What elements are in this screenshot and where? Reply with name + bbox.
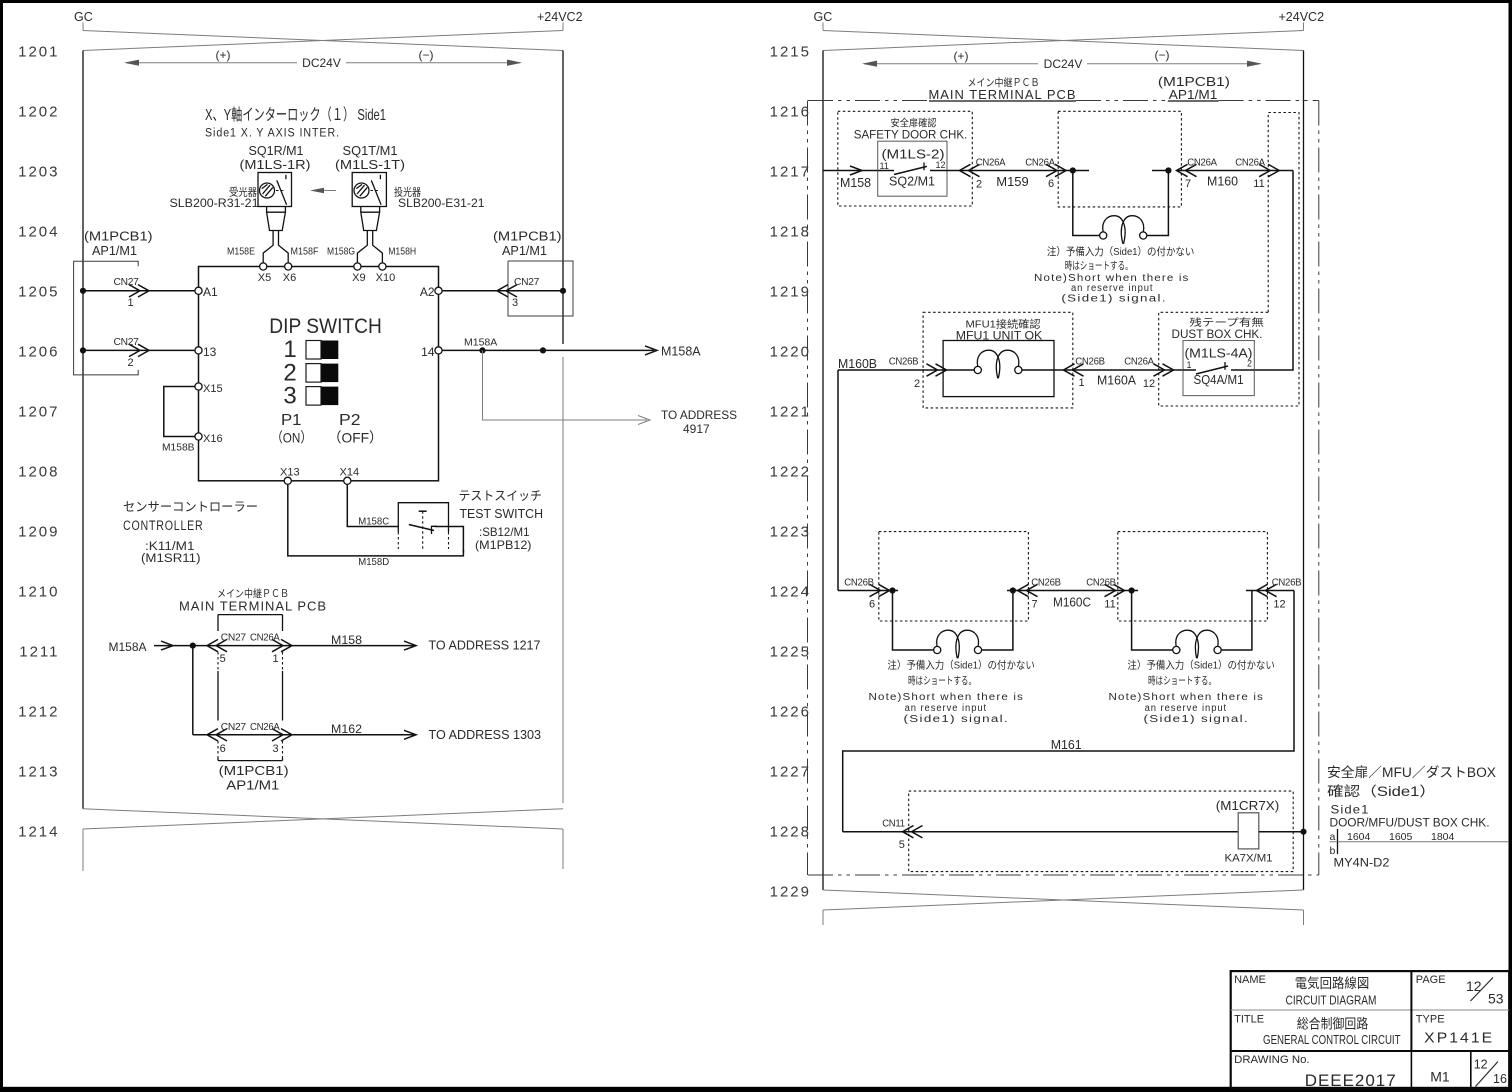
PCB bracket M1PCB1 (right) xyxy=(493,230,573,317)
cable connector below SQ1R xyxy=(267,207,286,231)
PCB label below connector box xyxy=(219,764,289,793)
svg-text:1227: 1227 xyxy=(770,764,811,781)
net GC label (right block) xyxy=(814,10,833,31)
svg-text:12: 12 xyxy=(1474,1058,1488,1072)
svg-text:P1: P1 xyxy=(281,412,302,429)
terminal X15 xyxy=(195,383,223,395)
svg-text:11: 11 xyxy=(1104,599,1115,611)
svg-text:SLB200-E31-21: SLB200-E31-21 xyxy=(398,198,485,210)
svg-text:AP1/M1: AP1/M1 xyxy=(226,779,279,793)
title block: TYPE cell xyxy=(1416,1014,1494,1047)
svg-text:センサーコントローラー: センサーコントローラー xyxy=(123,500,258,514)
svg-text:4917: 4917 xyxy=(683,422,710,436)
svg-text:1204: 1204 xyxy=(18,224,59,241)
svg-text:12: 12 xyxy=(1143,378,1155,390)
svg-text:DUST BOX CHK.: DUST BOX CHK. xyxy=(1172,329,1263,341)
svg-text:CN11: CN11 xyxy=(882,819,905,830)
safety door check dotted box xyxy=(838,111,973,206)
connector CN27 pin3 (A2 to +24VC2 rail) xyxy=(442,277,566,309)
svg-text:2: 2 xyxy=(976,179,982,191)
test switch SB12/M1 xyxy=(398,503,463,553)
connector CN27 pin5 / CN26A pin1 (row 1211) xyxy=(207,633,292,666)
title block: NAME cell xyxy=(1234,974,1376,1008)
svg-text:CN26A: CN26A xyxy=(1187,158,1217,169)
svg-text:DRAWING No.: DRAWING No. xyxy=(1234,1054,1310,1066)
terminal X14 xyxy=(340,467,360,485)
page-break cross (left block top) xyxy=(83,31,563,51)
address row labels 1201-1214 xyxy=(18,44,59,841)
svg-text:DEEE2017: DEEE2017 xyxy=(1305,1071,1397,1090)
wire M162 to address 1303 xyxy=(331,722,541,742)
svg-text:時はショートする。: 時はショートする。 xyxy=(1148,675,1216,687)
terminal A2 xyxy=(420,285,442,299)
address row labels 1215-1229 xyxy=(770,44,811,901)
svg-text:M158C: M158C xyxy=(358,516,389,528)
reserve input dotted box B (rows 1223-24) xyxy=(1118,532,1268,621)
wire M158A drop to row 1212 xyxy=(192,646,194,735)
wire M158B (X15-X16 jumper loop) xyxy=(162,387,195,454)
svg-text:2: 2 xyxy=(1247,359,1252,369)
PCB label M1PCB1 AP1/M1 header xyxy=(1158,75,1230,102)
connector CN11 pin5 (row 1228) xyxy=(843,819,1238,852)
svg-text:SQ1T/M1: SQ1T/M1 xyxy=(343,143,398,158)
svg-text:X9: X9 xyxy=(352,272,365,284)
connector CN26B pin1 / CN26A pin12 (wire M160A) xyxy=(1054,357,1183,391)
svg-text:安全扉／MFU／ダストBOX: 安全扉／MFU／ダストBOX xyxy=(1327,764,1496,780)
svg-text:53: 53 xyxy=(1488,991,1504,1007)
svg-text:3: 3 xyxy=(273,743,279,755)
svg-text:確認（Side1）: 確認（Side1） xyxy=(1327,784,1436,799)
svg-text:1214: 1214 xyxy=(18,824,59,841)
svg-text:MY4N-D2: MY4N-D2 xyxy=(1334,856,1390,870)
svg-text:1201: 1201 xyxy=(18,44,59,61)
svg-text:CN26A: CN26A xyxy=(250,722,280,733)
svg-text:M158D: M158D xyxy=(358,556,389,568)
svg-text:(M1PCB1): (M1PCB1) xyxy=(1158,75,1230,89)
svg-text:CN27: CN27 xyxy=(514,277,540,288)
svg-text:安全扉確認: 安全扉確認 xyxy=(891,117,937,130)
svg-text:1217: 1217 xyxy=(770,164,811,181)
svg-text:M160A: M160A xyxy=(1097,374,1137,388)
limit switch SQ2/M1 (safety door) xyxy=(878,141,947,196)
svg-text:X5: X5 xyxy=(258,272,271,284)
svg-text:CN26A: CN26A xyxy=(976,158,1006,169)
svg-text:M158A: M158A xyxy=(464,337,497,349)
wire M158G (SQ1T to X9) xyxy=(327,231,367,263)
svg-text:12: 12 xyxy=(936,160,946,170)
svg-text:(+): (+) xyxy=(216,48,231,62)
svg-text:1213: 1213 xyxy=(18,764,59,781)
svg-text:DIP SWITCH: DIP SWITCH xyxy=(269,315,382,338)
test switch labels xyxy=(459,489,544,552)
svg-text:1224: 1224 xyxy=(770,584,811,601)
wire M158C (X14 to test switch) xyxy=(347,484,398,527)
relay contact cross reference table xyxy=(1330,829,1510,870)
page-break cross (right block bottom) xyxy=(823,890,1304,925)
svg-text:M162: M162 xyxy=(331,722,362,736)
svg-text:(M1LS-1R): (M1LS-1R) xyxy=(240,157,311,172)
svg-text:DOOR/MFU/DUST BOX CHK.: DOOR/MFU/DUST BOX CHK. xyxy=(1330,818,1490,830)
svg-text:1206: 1206 xyxy=(18,344,59,361)
MFU1 unit jumper box xyxy=(943,341,1054,397)
terminal 13 xyxy=(195,345,217,359)
svg-text:AP1/M1: AP1/M1 xyxy=(1169,88,1218,102)
svg-text:12: 12 xyxy=(1273,599,1285,611)
wire M158A out (to right) xyxy=(442,337,701,359)
svg-text:TO ADDRESS 1303: TO ADDRESS 1303 xyxy=(429,728,542,742)
title block: 12/16 cell xyxy=(1474,1058,1507,1087)
svg-text:CN27: CN27 xyxy=(221,722,247,733)
svg-text:(M1PCB1): (M1PCB1) xyxy=(84,230,153,244)
svg-text:X6: X6 xyxy=(283,272,296,284)
wire M158H (SQ1T to X10) xyxy=(373,231,417,263)
net +24VC2 label (left block) xyxy=(537,10,583,31)
svg-text:M158E: M158E xyxy=(227,246,255,258)
wire M160 loop to row 1220 xyxy=(1254,171,1293,371)
svg-text:1210: 1210 xyxy=(18,584,59,601)
svg-text:1203: 1203 xyxy=(18,164,59,181)
svg-text:1215: 1215 xyxy=(770,44,811,61)
reserve input dotted box (row 1217) xyxy=(1058,111,1181,207)
dust box chain dotted region (L shape) xyxy=(1159,113,1299,407)
svg-text:GENERAL CONTROL CIRCUIT: GENERAL CONTROL CIRCUIT xyxy=(1263,1033,1401,1047)
svg-text:M158F: M158F xyxy=(291,246,319,258)
limit switch SQ1T/M1 labels xyxy=(335,143,485,210)
svg-text:M158H: M158H xyxy=(388,246,416,258)
svg-text:1208: 1208 xyxy=(18,464,59,481)
svg-text:M158A: M158A xyxy=(109,640,147,654)
svg-text:(−): (−) xyxy=(1155,48,1170,62)
title block frame xyxy=(1231,971,1510,1089)
terminal X6 xyxy=(283,263,296,284)
main terminal PCB header (right block) xyxy=(929,76,1077,102)
svg-text:6: 6 xyxy=(220,743,226,755)
svg-text:M158B: M158B xyxy=(162,442,195,454)
Side1 boundary chain line (right) xyxy=(1318,101,1320,876)
svg-text:M160B: M160B xyxy=(838,357,877,371)
svg-text:(+): (+) xyxy=(954,49,969,63)
svg-text:TO ADDRESS: TO ADDRESS xyxy=(661,408,737,422)
net GC label (left) xyxy=(74,10,93,31)
svg-text:TITLE: TITLE xyxy=(1234,1014,1264,1026)
connector CN26A pin7 / pin11 (wire M160) xyxy=(1177,158,1294,191)
svg-text:(M1PCB1): (M1PCB1) xyxy=(219,764,289,778)
svg-text:(M1CR7X): (M1CR7X) xyxy=(1216,799,1280,813)
terminal 14 xyxy=(421,345,442,359)
page border xyxy=(0,0,1512,3)
cable connector below SQ1T xyxy=(361,207,380,231)
svg-text:X14: X14 xyxy=(340,467,360,479)
svg-text:6: 6 xyxy=(869,599,875,611)
svg-text:1216: 1216 xyxy=(770,104,811,121)
svg-text:Side1: Side1 xyxy=(1331,803,1370,817)
svg-text:CONTROLLER: CONTROLLER xyxy=(123,518,204,533)
svg-text:CN26B: CN26B xyxy=(844,578,874,589)
wire M158D (test switch to X13) xyxy=(288,484,464,568)
wire M158 entering row 1217 xyxy=(823,166,878,190)
svg-text:CN27: CN27 xyxy=(221,633,247,644)
svg-text:16: 16 xyxy=(1493,1072,1507,1086)
svg-text:1223: 1223 xyxy=(770,524,811,541)
svg-text:SQ1R/M1: SQ1R/M1 xyxy=(249,143,304,158)
svg-text:A2: A2 xyxy=(420,285,435,299)
svg-text:CN27: CN27 xyxy=(114,277,140,288)
svg-text:(Side1) signal.: (Side1) signal. xyxy=(1144,714,1250,725)
svg-text:GC: GC xyxy=(74,10,93,24)
svg-text:Note)Short when there is: Note)Short when there is xyxy=(1109,692,1265,703)
svg-text:2: 2 xyxy=(914,378,920,390)
limit switch SQ4A/M1 (dust box) xyxy=(1183,341,1254,396)
net +24VC2 label (right block) xyxy=(1279,10,1325,31)
beam direction arrow xyxy=(310,188,336,194)
svg-text:2: 2 xyxy=(128,357,134,369)
svg-text:an reserve input: an reserve input xyxy=(1145,703,1228,714)
svg-text:TEST SWITCH: TEST SWITCH xyxy=(460,506,544,521)
svg-text:注）予備入力（Side1）の付かない: 注）予備入力（Side1）の付かない xyxy=(1127,659,1275,672)
svg-text:11: 11 xyxy=(1253,178,1264,190)
svg-text:(M1LS-1T): (M1LS-1T) xyxy=(335,157,405,172)
svg-text:1219: 1219 xyxy=(770,284,811,301)
svg-text:注）予備入力（Side1）の付かない: 注）予備入力（Side1）の付かない xyxy=(1047,245,1195,258)
svg-text:CN26B: CN26B xyxy=(889,357,919,368)
svg-text::K11/M1: :K11/M1 xyxy=(145,541,195,553)
svg-text:6: 6 xyxy=(1048,178,1054,190)
svg-text::SB12/M1: :SB12/M1 xyxy=(479,525,530,539)
svg-text:(Side1) signal.: (Side1) signal. xyxy=(904,714,1010,725)
sensor controller labels xyxy=(123,500,258,565)
wire M160B (row 1220) xyxy=(838,357,947,391)
svg-text:CN26A: CN26A xyxy=(1025,158,1055,169)
svg-text:(M1SR11): (M1SR11) xyxy=(141,553,201,565)
svg-text:DC24V: DC24V xyxy=(302,56,341,70)
svg-text:残テープ有無: 残テープ有無 xyxy=(1189,316,1264,329)
svg-text:an reserve input: an reserve input xyxy=(1071,283,1154,294)
connector CN27 pin6 / CN26A pin3 (row 1212) xyxy=(193,722,416,755)
connector CN26A pin2 / pin6 (wire M159) xyxy=(947,158,1073,191)
note text B (rows 1225-26) xyxy=(1109,659,1275,726)
limit switch SQ1R/M1 (receiver SLB200-R31-21) xyxy=(258,173,292,207)
svg-text:1209: 1209 xyxy=(18,524,59,541)
svg-text:M161: M161 xyxy=(1051,738,1082,752)
note text (row 1218-1219) xyxy=(1034,245,1194,305)
svg-text:1228: 1228 xyxy=(770,824,811,841)
svg-text:CN26B: CN26B xyxy=(1272,578,1302,589)
svg-text:13: 13 xyxy=(203,345,217,359)
svg-text:SLB200-R31-21: SLB200-R31-21 xyxy=(170,198,259,210)
svg-text:1202: 1202 xyxy=(18,104,59,121)
svg-text:1221: 1221 xyxy=(770,404,811,421)
GC power rail (right block, x=823) xyxy=(822,51,824,891)
svg-text:M158: M158 xyxy=(331,633,362,647)
svg-text:5: 5 xyxy=(220,653,226,665)
svg-text:時はショートする。: 時はショートする。 xyxy=(1065,260,1133,272)
page-break cross (right block top) xyxy=(823,31,1304,51)
svg-text:（OFF）: （OFF） xyxy=(328,430,383,446)
wire M158F (SQ1R to X6) xyxy=(279,231,319,263)
svg-text:X15: X15 xyxy=(203,383,223,395)
main terminal PCB label (left block) xyxy=(179,587,327,614)
reserve input jumper (row 1218) xyxy=(1070,167,1172,243)
terminal A1 xyxy=(195,285,218,299)
wire M158A into CN27 pin5 xyxy=(109,640,417,654)
svg-text:1220: 1220 xyxy=(770,344,811,361)
svg-text:1211: 1211 xyxy=(19,644,59,661)
svg-text:CN26A: CN26A xyxy=(1235,158,1265,169)
svg-text:1222: 1222 xyxy=(770,464,811,481)
svg-text:11: 11 xyxy=(880,161,889,171)
svg-text:注）予備入力（Side1）の付かない: 注）予備入力（Side1）の付かない xyxy=(887,659,1035,672)
svg-text:1212: 1212 xyxy=(18,704,59,721)
svg-text:(Side1) signal.: (Side1) signal. xyxy=(1061,294,1167,305)
wire M161 xyxy=(843,591,1294,832)
wire M160B drop (x=838) xyxy=(837,370,839,591)
svg-text:Note)Short when there is: Note)Short when there is xyxy=(869,692,1025,703)
svg-text:電気回路線図: 電気回路線図 xyxy=(1295,976,1370,991)
svg-text:CN26A: CN26A xyxy=(250,633,280,644)
limit switch SQ1T/M1 (emitter SLB200-E31-21) xyxy=(352,173,386,207)
svg-text:1: 1 xyxy=(1187,360,1192,370)
wire relay to +24VC2 rail xyxy=(1259,829,1307,835)
svg-text:A1: A1 xyxy=(203,285,218,299)
connector CN26B pin6 (row 1224) xyxy=(838,578,898,611)
svg-text:XP141E: XP141E xyxy=(1424,1030,1494,1047)
svg-text:CN26B: CN26B xyxy=(1075,357,1105,368)
svg-text:M1: M1 xyxy=(1430,1069,1450,1085)
DC24V polarity arrow (right block) xyxy=(862,48,1262,71)
svg-text:1225: 1225 xyxy=(770,644,811,661)
connector CN26B pin7 / pin11 (wire M160C) xyxy=(1007,578,1138,611)
reserve jumper B (row 1225) xyxy=(1132,591,1252,659)
svg-text:MFU1接続確認: MFU1接続確認 xyxy=(966,318,1042,331)
svg-text:7: 7 xyxy=(1185,178,1191,190)
svg-text:1: 1 xyxy=(128,297,134,309)
relay row dotted box xyxy=(909,791,1293,872)
svg-text:AP1/M1: AP1/M1 xyxy=(502,244,547,258)
svg-text:(M1LS-4A): (M1LS-4A) xyxy=(1185,347,1253,361)
svg-text:TYPE: TYPE xyxy=(1416,1014,1445,1026)
terminal X16 xyxy=(195,433,223,445)
page-break cross (left block bottom) xyxy=(83,809,563,871)
connector CN27 pin1 (wire to A1) xyxy=(80,277,195,309)
svg-text:M159: M159 xyxy=(996,175,1029,189)
svg-text:3: 3 xyxy=(283,383,296,410)
terminal X13 xyxy=(280,467,300,485)
limit switch SQ1R/M1 labels xyxy=(170,143,311,210)
svg-text:NAME: NAME xyxy=(1234,974,1266,986)
svg-text:投光器: 投光器 xyxy=(394,186,421,199)
DC24V polarity arrow (left block) xyxy=(124,48,522,70)
svg-text:KA7X/M1: KA7X/M1 xyxy=(1225,853,1273,865)
svg-text:1: 1 xyxy=(1078,377,1084,389)
svg-text:SAFETY DOOR CHK.: SAFETY DOOR CHK. xyxy=(854,130,968,142)
svg-text:1205: 1205 xyxy=(18,284,59,301)
svg-text:7: 7 xyxy=(1031,599,1037,611)
svg-text:SQ4A/M1: SQ4A/M1 xyxy=(1194,373,1244,387)
svg-text:受光器: 受光器 xyxy=(229,186,257,199)
svg-text:TO ADDRESS 1217: TO ADDRESS 1217 xyxy=(429,639,541,653)
terminal X10 xyxy=(376,263,396,284)
svg-text:(−): (−) xyxy=(419,48,434,62)
GC power rail (left block, x=83) xyxy=(82,51,84,809)
section title: X,Y axis interlock Side1 xyxy=(205,106,386,140)
wire to address 4917 xyxy=(483,350,738,436)
relay coil KA7X/M1 (M1CR7X) xyxy=(1216,799,1280,865)
svg-text:1: 1 xyxy=(273,653,279,665)
controller K11/M1 box xyxy=(199,267,439,481)
svg-text:CN26A: CN26A xyxy=(1124,357,1154,368)
connector CN26B pin12 (row 1224) xyxy=(1246,578,1302,611)
reserve jumper A (row 1225) xyxy=(893,591,1013,659)
svg-text:AP1/M1: AP1/M1 xyxy=(92,244,137,258)
svg-text:CN27: CN27 xyxy=(114,337,140,348)
svg-text:P2: P2 xyxy=(339,412,361,429)
svg-text:テストスイッチ: テストスイッチ xyxy=(459,489,543,503)
svg-text:M158A: M158A xyxy=(661,345,701,359)
dust box check labels xyxy=(1172,316,1264,341)
svg-text:X13: X13 xyxy=(280,467,300,479)
svg-text:時はショートする。: 時はショートする。 xyxy=(908,675,976,687)
svg-text:PAGE: PAGE xyxy=(1416,974,1446,986)
svg-text:X16: X16 xyxy=(203,433,223,445)
svg-text:SQ2/M1: SQ2/M1 xyxy=(889,175,935,189)
+24VC2 power rail (right block, x=1303.5) xyxy=(1303,51,1305,891)
svg-text:MAIN TERMINAL PCB: MAIN TERMINAL PCB xyxy=(179,599,327,614)
svg-text:GC: GC xyxy=(814,10,833,24)
DIP SWITCH graphic xyxy=(269,315,383,446)
svg-text:（ON）: （ON） xyxy=(271,430,312,446)
svg-text:CIRCUIT DIAGRAM: CIRCUIT DIAGRAM xyxy=(1286,993,1377,1008)
svg-text:1207: 1207 xyxy=(18,404,59,421)
svg-text:MAIN TERMINAL PCB: MAIN TERMINAL PCB xyxy=(929,87,1077,102)
terminal pcb connector box (rows 1211-1212) xyxy=(218,615,283,761)
svg-text:Side1 X. Y AXIS INTER.: Side1 X. Y AXIS INTER. xyxy=(205,128,340,140)
Side1 boundary chain line (left) xyxy=(807,101,809,876)
svg-text:総合制御回路: 総合制御回路 xyxy=(1297,1017,1369,1032)
svg-text:CN26B: CN26B xyxy=(1086,578,1116,589)
svg-text:14: 14 xyxy=(421,345,435,359)
title block: DRAWING No. cell xyxy=(1234,1054,1397,1090)
MFU1 unit dotted box xyxy=(923,312,1073,408)
svg-text:X10: X10 xyxy=(376,272,396,284)
svg-text:(M1PB12): (M1PB12) xyxy=(475,538,532,552)
svg-text:+24VC2: +24VC2 xyxy=(1279,10,1325,24)
svg-text:M160: M160 xyxy=(1207,175,1238,189)
Side1 boundary chain line (top) xyxy=(808,100,929,102)
side caption: door/MFU/dust box check xyxy=(1327,764,1496,830)
+24VC2 power rail (left block, x=563) xyxy=(562,51,564,804)
wire M158E (SQ1R to X5) xyxy=(227,231,273,263)
svg-text:(M1PCB1): (M1PCB1) xyxy=(493,230,562,244)
svg-text:X、Y軸インターロック（１） Side1: X、Y軸インターロック（１） Side1 xyxy=(205,106,386,124)
svg-text:M160C: M160C xyxy=(1053,596,1091,610)
title block: TITLE cell xyxy=(1234,1014,1401,1048)
svg-text:1218: 1218 xyxy=(770,224,811,241)
svg-text:+24VC2: +24VC2 xyxy=(537,10,583,24)
terminal X5 xyxy=(258,263,271,284)
reserve input dotted box A (rows 1223-24) xyxy=(879,532,1029,621)
title block: PAGE cell xyxy=(1416,974,1504,1007)
PCB bracket M1PCB1 (left) xyxy=(74,230,153,375)
svg-text:CN26B: CN26B xyxy=(1031,578,1061,589)
svg-text:3: 3 xyxy=(512,297,518,309)
svg-text:1226: 1226 xyxy=(770,704,811,721)
svg-text:DC24V: DC24V xyxy=(1044,57,1083,71)
terminal X9 xyxy=(352,263,365,284)
svg-text:an reserve input: an reserve input xyxy=(905,703,988,714)
note text A (rows 1225-26) xyxy=(869,659,1035,726)
svg-text:M158: M158 xyxy=(840,176,871,190)
wire M158 to address 1217 xyxy=(331,633,541,653)
